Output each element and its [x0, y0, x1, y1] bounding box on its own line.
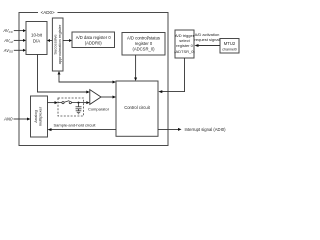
wire ADTSR_0 to control circuit [158, 58, 184, 93]
wire MTU2 to ADTSR_0 [195, 44, 221, 47]
node junction dot [78, 102, 80, 104]
svg-text:AVSS: AVSS [3, 48, 13, 54]
svg-text:10-bit: 10-bit [31, 33, 43, 38]
wire interrupt signal ADI0 [158, 127, 226, 132]
ground [76, 111, 82, 114]
svg-text:register 0: register 0 [135, 41, 153, 46]
register ADCSR_0 (A/D control/status register 0) [122, 33, 165, 56]
pin AN0 [3, 117, 31, 122]
svg-text:channel0: channel0 [222, 47, 237, 51]
wire sample-and-hold to comparator [86, 101, 90, 104]
successive approximations register [52, 18, 63, 71]
svg-text:multiplexer: multiplexer [38, 106, 43, 126]
wire successive reg to A/D data register 0 [63, 39, 72, 42]
switch in sample-and-hold [58, 101, 84, 104]
svg-text:MTU2: MTU2 [224, 41, 236, 46]
svg-text:approximation register: approximation register [57, 24, 62, 64]
svg-text:request signal: request signal [195, 37, 220, 42]
svg-text:Comparator: Comparator [88, 107, 110, 112]
D/A converter block (10-bit D/A) [26, 22, 47, 55]
wire successive reg to control circuit [58, 71, 117, 84]
control circuit block [116, 81, 158, 136]
svg-text:Interrupt signal (ADI0): Interrupt signal (ADI0) [185, 127, 227, 132]
register ADDR0 (A/D data register 0) [72, 32, 115, 48]
sample-and-hold circuit dashed box [58, 98, 84, 116]
svg-text:AVCC: AVCC [2, 28, 13, 34]
pin AVss [3, 48, 26, 54]
svg-text:A/D data register 0: A/D data register 0 [76, 35, 112, 40]
svg-text:<AD0>: <AD0> [41, 10, 55, 15]
svg-text:A/D control/status: A/D control/status [127, 36, 160, 41]
svg-text:(ADCSR_0): (ADCSR_0) [132, 46, 155, 51]
svg-text:(ADTSR_0): (ADTSR_0) [174, 49, 195, 54]
wire ADCSR_0 to control circuit [134, 55, 137, 81]
svg-text:register 0: register 0 [176, 43, 193, 48]
wire successive reg to D/A [47, 39, 52, 42]
capacitor in sample-and-hold [76, 103, 82, 111]
wire multiplexer to sample-and-hold [48, 101, 59, 104]
pin AVref [3, 38, 26, 44]
node A/D activation request signal label [195, 32, 220, 42]
svg-text:(ADDR0): (ADDR0) [85, 41, 103, 46]
svg-text:D/A: D/A [33, 38, 40, 43]
svg-text:AVref: AVref [3, 38, 14, 44]
svg-text:Sample-and-hold circuit: Sample-and-hold circuit [53, 123, 96, 128]
pin AVcc [2, 28, 26, 34]
wire control circuit to multiplexer [48, 128, 117, 131]
wire comparator to control circuit [101, 96, 116, 99]
svg-text:AN0: AN0 [3, 117, 13, 122]
register ADTSR_0 (A/D trigger select register 0) [174, 30, 195, 58]
module boundary box AD0 [19, 13, 168, 146]
wire D/A to comparator [38, 55, 90, 94]
comparator U1 [88, 90, 110, 112]
analog multiplexer block [31, 96, 48, 137]
svg-text:Control circuit: Control circuit [124, 105, 150, 110]
MTU2 block [220, 39, 239, 54]
